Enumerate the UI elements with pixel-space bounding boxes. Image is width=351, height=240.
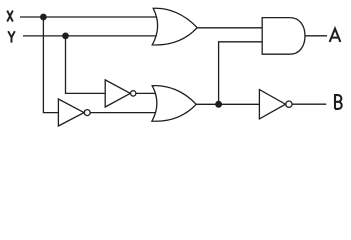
wire junction up to AND input xyxy=(219,42,262,105)
wire INV3 to B xyxy=(292,103,326,105)
output label A xyxy=(330,29,341,42)
output label B xyxy=(335,95,342,109)
wire INV1 to OR2 xyxy=(136,92,156,94)
wire INV2 to OR2 xyxy=(90,112,156,114)
inverter INV3 triangle xyxy=(259,90,285,119)
node X junction xyxy=(40,14,47,21)
inverter INV2 bubble xyxy=(84,110,90,116)
inverter INV2 triangle xyxy=(58,99,84,126)
wire Y branch to INV1 xyxy=(66,36,106,94)
input label X xyxy=(7,11,13,22)
or-gate OR2 xyxy=(152,86,196,122)
wire X input xyxy=(20,16,156,18)
or-gate OR1 xyxy=(152,8,197,45)
and-gate U2 xyxy=(262,18,305,55)
node OR2 output junction xyxy=(215,101,222,108)
wire OR1 output to AND xyxy=(197,27,263,29)
node Y junction xyxy=(62,33,69,40)
wire Y input xyxy=(23,35,156,37)
input label Y xyxy=(8,31,15,42)
inverter INV3 bubble xyxy=(286,101,292,107)
wire OR2 output to INV3 xyxy=(196,103,260,105)
inverter INV1 bubble xyxy=(131,91,136,96)
wire X branch to INV2 xyxy=(43,17,58,113)
wire AND output xyxy=(305,35,327,37)
inverter INV1 triangle xyxy=(105,80,130,107)
